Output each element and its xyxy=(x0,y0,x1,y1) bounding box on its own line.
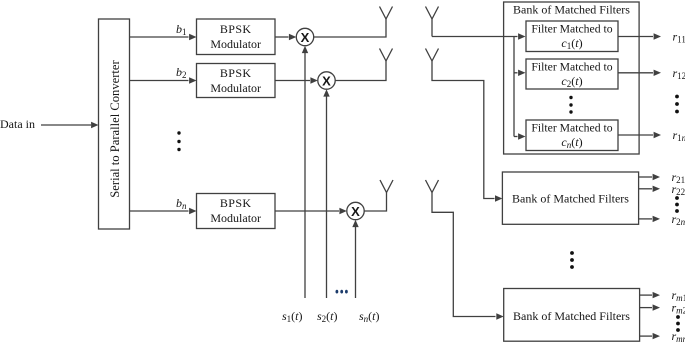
wire M3 to TX antenna 3 xyxy=(364,193,386,212)
wire RX antenna 1 to bank 1 input xyxy=(432,19,526,40)
node Data in xyxy=(0,117,35,131)
svg-text:Filter Matched to: Filter Matched to xyxy=(531,122,612,135)
wire RX antenna 2 to bank 2 xyxy=(432,61,502,202)
filter matched to c2(t) xyxy=(526,59,618,89)
wire s1 carrier line xyxy=(302,46,308,298)
filter matched to cn(t) xyxy=(526,120,618,151)
wire filtern output r1n xyxy=(618,132,661,138)
svg-text:b1: b1 xyxy=(176,22,187,37)
antenna TX3 xyxy=(380,180,393,193)
BPSK modulator n xyxy=(197,194,276,229)
vertical ellipsis between modulators xyxy=(177,131,180,151)
antenna RX3 xyxy=(426,180,439,193)
wire M1 to TX antenna 1 xyxy=(314,19,386,37)
svg-text:Filter Matched to: Filter Matched to xyxy=(531,23,612,36)
svg-text:bn: bn xyxy=(176,196,187,211)
wire bank3 output rm2 xyxy=(640,304,660,310)
svg-text:r1n: r1n xyxy=(673,128,685,143)
wire branch to filter n xyxy=(514,133,526,139)
antenna TX2 xyxy=(380,49,393,62)
wire bank2 output r22 xyxy=(639,186,660,192)
wire bank1 input branch vertical xyxy=(513,37,515,137)
node r22 label xyxy=(672,182,685,197)
antenna RX2 xyxy=(426,49,439,62)
svg-text:Modulator: Modulator xyxy=(210,81,261,95)
wire b2 xyxy=(130,77,197,83)
node r2n label xyxy=(672,212,685,227)
node s1(t) label xyxy=(282,309,303,324)
svg-text:r12: r12 xyxy=(673,66,685,81)
node s2(t) label xyxy=(317,309,338,324)
wire data-in to S/P converter xyxy=(41,122,99,128)
svg-text:sn(t): sn(t) xyxy=(359,309,380,324)
node rm1 label xyxy=(672,288,685,303)
horizontal ellipsis between s2 and sn (blue) xyxy=(336,290,348,294)
node bn label xyxy=(176,196,187,211)
node r11 label xyxy=(673,30,685,45)
node rm2 label xyxy=(672,301,685,316)
svg-text:Filter Matched to: Filter Matched to xyxy=(531,61,612,74)
multiplier M3 xyxy=(347,202,364,219)
svg-text:Data in: Data in xyxy=(0,117,35,131)
wire RX antenna 3 to bank 3 xyxy=(432,193,504,320)
wire M2 to TX antenna 2 xyxy=(335,61,386,81)
svg-text:cn(t): cn(t) xyxy=(561,135,582,150)
node b1 label xyxy=(176,22,187,37)
node r21 label xyxy=(672,170,685,185)
wire bank3 output rmn xyxy=(640,333,660,339)
bank of matched filters 3 xyxy=(504,289,640,342)
node r12 label xyxy=(673,66,685,81)
node b2 label xyxy=(176,65,187,80)
svg-text:Serial to Parallel Converter: Serial to Parallel Converter xyxy=(108,59,122,197)
wire BPSKn to multiplier M3 xyxy=(275,208,347,214)
vertical ellipsis between bank2 and bank3 xyxy=(570,251,574,269)
svg-text:BPSK: BPSK xyxy=(220,196,252,210)
BPSK modulator 1 xyxy=(197,19,276,55)
svg-text:Modulator: Modulator xyxy=(210,211,261,225)
wire bank2 output r2n xyxy=(639,216,660,222)
svg-text:Bank of Matched Filters: Bank of Matched Filters xyxy=(512,192,629,206)
svg-text:Bank of Matched Filters: Bank of Matched Filters xyxy=(513,3,630,17)
svg-text:Bank of Matched Filters: Bank of Matched Filters xyxy=(513,309,630,323)
wire BPSK2 to multiplier M2 xyxy=(275,77,318,83)
svg-text:X: X xyxy=(322,74,331,89)
wire sn carrier line xyxy=(352,220,358,298)
bank of matched filters 2 xyxy=(502,172,638,224)
multiplier M2 xyxy=(318,72,335,89)
multiplier M1 xyxy=(296,28,313,45)
wire filter2 output r12 xyxy=(618,70,661,76)
bank of matched filters 1 (outer box) xyxy=(504,2,639,154)
svg-text:BPSK: BPSK xyxy=(220,22,252,36)
svg-text:BPSK: BPSK xyxy=(220,66,252,80)
svg-text:b2: b2 xyxy=(176,65,187,80)
svg-text:r11: r11 xyxy=(673,30,685,45)
vertical ellipsis inside bank 1 xyxy=(569,96,572,114)
svg-text:r2n: r2n xyxy=(672,212,685,227)
svg-text:c1(t): c1(t) xyxy=(561,36,582,51)
wire branch to filter 2 xyxy=(514,70,526,76)
node sn(t) label xyxy=(359,309,380,324)
wire b1 xyxy=(130,34,197,40)
vertical ellipsis r1 outputs xyxy=(675,95,679,114)
antenna TX1 xyxy=(380,7,393,20)
svg-text:Modulator: Modulator xyxy=(210,37,261,51)
svg-text:X: X xyxy=(351,204,360,219)
wire bank3 output rm1 xyxy=(640,292,660,298)
svg-text:s1(t): s1(t) xyxy=(282,309,303,324)
wire bank2 output r21 xyxy=(639,174,660,180)
filter matched to c1(t) xyxy=(526,21,618,52)
vertical ellipsis r2 outputs xyxy=(675,196,679,213)
serial to parallel converter xyxy=(99,19,130,229)
wire bn xyxy=(130,208,197,214)
wire s2 carrier line xyxy=(323,89,329,298)
BPSK modulator 2 xyxy=(197,64,276,98)
antenna RX1 xyxy=(426,7,439,20)
node r1n label xyxy=(673,128,685,143)
node rmn label xyxy=(672,329,685,343)
wire BPSK1 to multiplier M1 xyxy=(275,34,296,40)
wire filter1 output r11 xyxy=(618,33,661,39)
svg-text:s2(t): s2(t) xyxy=(317,309,338,324)
vertical ellipsis rm outputs xyxy=(676,315,680,332)
svg-text:X: X xyxy=(301,30,310,45)
svg-text:c2(t): c2(t) xyxy=(561,74,582,89)
